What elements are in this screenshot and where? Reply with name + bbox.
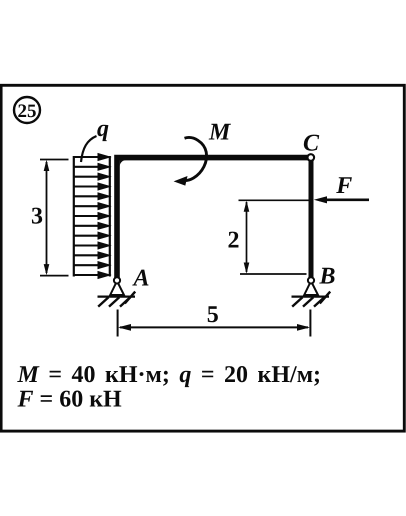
svg-text:A: A — [131, 266, 149, 292]
force F arrow — [319, 198, 369, 201]
svg-text:25: 25 — [18, 101, 37, 122]
dim2 line — [246, 202, 248, 272]
moment arc M — [182, 138, 207, 181]
dim2 top tick — [239, 199, 310, 201]
frame member: right column — [309, 160, 314, 280]
leader line from q to load — [81, 136, 97, 162]
support A hatches — [98, 292, 135, 307]
frame member: left column + top beam — [117, 158, 311, 280]
support B: pin — [292, 277, 331, 306]
dim5 left extension tick — [117, 310, 119, 337]
dimension 3 (left) — [40, 160, 69, 276]
support A triangle — [110, 281, 124, 295]
frame corner fillet — [120, 160, 126, 166]
border frame — [1, 85, 404, 431]
load left border — [73, 156, 75, 277]
dim3 top tick — [40, 159, 69, 161]
dimension 2 (right) — [239, 200, 310, 274]
svg-text:3: 3 — [31, 204, 43, 230]
svg-text:M: M — [208, 120, 232, 146]
support B pin circle — [308, 277, 314, 283]
load arrows — [73, 153, 112, 279]
support A pin circle — [114, 277, 120, 283]
dimension 5 (bottom) — [118, 310, 311, 337]
support A: pin — [98, 277, 136, 306]
dim5 line — [120, 326, 308, 328]
svg-text:B: B — [318, 264, 335, 290]
dim3 bottom tick — [40, 275, 69, 277]
support B triangle — [304, 281, 318, 295]
dim2 bottom tick — [240, 273, 307, 275]
moment arrowhead — [174, 176, 188, 186]
svg-text:F: F — [335, 173, 352, 199]
svg-text:5: 5 — [207, 302, 219, 328]
dim3 line — [46, 162, 48, 273]
svg-text:q: q — [97, 116, 109, 142]
support A ground line — [98, 296, 136, 298]
svg-text:2: 2 — [228, 228, 240, 254]
problem number badge circle 25 — [14, 97, 40, 123]
svg-text:F = 60 кН: F = 60 кН — [17, 387, 123, 413]
svg-text:M = 40 кН·м; q = 20 кН/м;: M = 40 кН·м; q = 20 кН/м; — [17, 362, 322, 388]
distributed load q block — [73, 153, 112, 279]
hinge circle at C — [308, 154, 315, 161]
support B hatches — [292, 292, 330, 307]
load right border — [109, 156, 111, 277]
svg-text:C: C — [303, 131, 320, 157]
support B ground line — [292, 296, 330, 298]
dim5 right extension tick — [309, 310, 311, 337]
